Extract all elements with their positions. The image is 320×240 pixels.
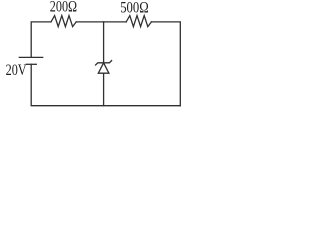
resistor R2 500ohm zigzag	[126, 16, 151, 27]
wire top-right and right side	[151, 22, 180, 106]
wire top-left segment	[31, 22, 51, 58]
svg-text:500Ω: 500Ω	[120, 0, 149, 16]
resistor R1 200ohm zigzag	[51, 16, 76, 27]
svg-text:20V: 20V	[6, 62, 27, 79]
wire middle branch lower	[103, 73, 105, 106]
zener diode triangle	[98, 63, 109, 73]
wire top-middle segment	[76, 21, 126, 23]
battery long plate	[19, 56, 42, 58]
wire middle branch upper	[103, 22, 105, 63]
svg-text:200Ω: 200Ω	[50, 0, 77, 16]
zener diode bar	[96, 61, 112, 65]
battery short plate	[26, 63, 36, 65]
wire bottom	[31, 64, 180, 105]
